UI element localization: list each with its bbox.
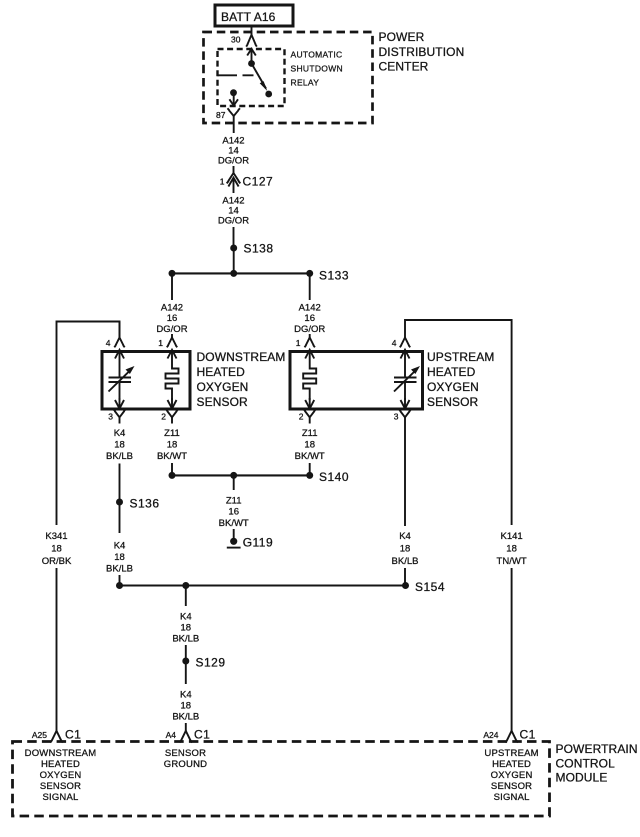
wire down to PCM pin A4 — [185, 723, 187, 731]
svg-text:18: 18 — [304, 440, 315, 451]
relay movable contact arm with arrow — [252, 64, 268, 92]
svg-text:K4: K4 — [399, 531, 411, 542]
wire into C127 — [233, 166, 235, 174]
wire label K341 18 OR/BK — [42, 531, 72, 567]
junction node left of bus — [169, 270, 176, 277]
wire downstream pin 4 up and over — [57, 322, 120, 526]
svg-text:BK/WT: BK/WT — [157, 451, 187, 462]
svg-text:2: 2 — [161, 412, 166, 422]
wire down to splice bus — [119, 575, 121, 586]
svg-text:HEATED: HEATED — [427, 365, 476, 379]
wire S138 to bus — [233, 248, 235, 273]
wire S133 down to upstream sensor pin 1 — [309, 273, 311, 300]
wire label A142 14 DG/OR (upper) — [218, 136, 249, 167]
wire upstream pin 2 down to S140 — [309, 463, 311, 475]
pin 87 male arrow inside relay — [229, 93, 238, 106]
upstream sensor pin 1 fork — [305, 334, 315, 347]
svg-text:1: 1 — [220, 177, 225, 187]
wire pin 2 down to ground bus — [171, 463, 173, 475]
label DOWNSTREAM HEATED OXYGEN SENSOR SIGNAL — [25, 748, 97, 803]
svg-text:K4: K4 — [114, 541, 126, 552]
pin 87 female fork — [228, 108, 240, 133]
wire C127 to S138 — [233, 227, 235, 248]
svg-text:S138: S138 — [244, 242, 274, 256]
downstream sensor heater element (variable resistor) — [109, 366, 135, 400]
wire label K4 18 BK/LB (below pin 3) — [106, 428, 133, 462]
ground bus wire to S140 — [172, 474, 310, 476]
downstream heated oxygen sensor box — [102, 352, 190, 410]
label SENSOR GROUND — [164, 748, 207, 770]
svg-text:BATT A16: BATT A16 — [221, 10, 276, 24]
wire down to S129 — [185, 645, 187, 661]
wire upstream pin 4 up and over — [405, 320, 512, 525]
splice S136 — [116, 497, 160, 511]
downstream sensor pin 2 male arrow inside box — [168, 398, 177, 409]
svg-text:DG/OR: DG/OR — [218, 156, 249, 167]
upstream sensor pin 4 fork — [400, 338, 410, 348]
splice bus wire to S154 — [120, 584, 406, 586]
svg-text:S140: S140 — [319, 470, 349, 484]
svg-text:OXYGEN: OXYGEN — [40, 770, 82, 781]
svg-text:Z11: Z11 — [164, 428, 180, 439]
relay output terminal node — [230, 89, 237, 96]
label UPSTREAM HEATED OXYGEN SENSOR — [427, 350, 494, 409]
svg-text:S129: S129 — [196, 656, 226, 670]
svg-text:OXYGEN: OXYGEN — [427, 380, 479, 394]
wire down to S154 — [404, 568, 406, 586]
svg-text:30: 30 — [231, 35, 241, 45]
ground G119 — [227, 536, 273, 550]
wire label Z11 18 BK/WT (below upstream pin 2) — [295, 428, 325, 462]
svg-text:1: 1 — [296, 338, 301, 348]
svg-text:A4: A4 — [166, 730, 177, 740]
svg-text:SENSOR: SENSOR — [40, 781, 81, 792]
svg-text:18: 18 — [114, 440, 125, 451]
wire center junction down — [233, 475, 235, 490]
downstream sensor pin 3 fork below box — [113, 409, 125, 423]
svg-text:DOWNSTREAM: DOWNSTREAM — [25, 748, 97, 759]
svg-text:18: 18 — [181, 701, 192, 712]
PCM pin A25 fork at C1 — [50, 731, 63, 743]
battery feed box BATT A16 — [215, 5, 293, 26]
downstream sensor sensing element (resistor) — [166, 366, 179, 400]
svg-text:POWER: POWER — [379, 30, 425, 44]
svg-text:C1: C1 — [65, 728, 81, 742]
svg-text:SENSOR: SENSOR — [197, 395, 249, 409]
upstream sensor pin 1 male arrow inside box — [305, 350, 314, 366]
svg-text:S136: S136 — [130, 497, 160, 511]
svg-text:BK/LB: BK/LB — [172, 712, 199, 723]
wire label Z11 18 BK/WT (below pin 2) — [157, 428, 187, 462]
svg-text:18: 18 — [400, 544, 411, 555]
svg-text:3: 3 — [108, 412, 113, 422]
svg-text:Z11: Z11 — [226, 496, 242, 507]
svg-text:GROUND: GROUND — [164, 759, 207, 770]
svg-text:OR/BK: OR/BK — [42, 556, 72, 567]
svg-text:HEATED: HEATED — [492, 759, 531, 770]
svg-text:G119: G119 — [243, 536, 273, 550]
svg-text:4: 4 — [106, 338, 111, 348]
splice S133 — [306, 269, 349, 283]
upstream sensor sensing element (resistor) — [303, 366, 316, 400]
svg-text:SIGNAL: SIGNAL — [494, 792, 530, 803]
svg-text:TN/WT: TN/WT — [497, 556, 527, 567]
powertrain control module dashed box — [13, 742, 550, 817]
svg-text:4: 4 — [392, 338, 397, 348]
svg-text:SHUTDOWN: SHUTDOWN — [291, 64, 343, 74]
svg-text:BK/WT: BK/WT — [219, 518, 249, 529]
pin 30 connector (female fork / male arrow) — [246, 35, 257, 64]
svg-text:K4: K4 — [180, 612, 192, 623]
wire junction down from splice bus — [185, 586, 187, 607]
svg-text:16: 16 — [228, 507, 239, 518]
downstream sensor pin 3 male arrow inside box — [115, 398, 124, 409]
junction node at pin 2 wire — [169, 472, 176, 479]
wire K341 down to PCM pin A25 — [56, 568, 58, 731]
svg-text:MODULE: MODULE — [556, 771, 608, 785]
downstream sensor pin 1 fork — [167, 334, 177, 347]
svg-text:18: 18 — [114, 552, 125, 563]
upstream sensor pin 4 male arrow inside box — [401, 350, 410, 377]
svg-text:C1: C1 — [520, 728, 536, 742]
svg-text:DG/OR: DG/OR — [156, 324, 187, 335]
svg-text:S154: S154 — [415, 580, 445, 594]
downstream sensor pin 4 male arrow inside box — [115, 350, 124, 377]
svg-text:3: 3 — [394, 412, 399, 422]
svg-text:18: 18 — [167, 440, 178, 451]
relay mechanical linkage dashed line — [218, 74, 254, 76]
connector C127 (fork and arrow) — [227, 173, 241, 193]
wire label A142 16 DG/OR (left) — [156, 303, 187, 336]
svg-text:18: 18 — [181, 623, 192, 634]
wire label A142 16 DG/OR (right) — [294, 303, 325, 336]
svg-text:S133: S133 — [319, 269, 349, 283]
svg-text:BK/LB: BK/LB — [392, 556, 419, 567]
svg-text:HEATED: HEATED — [197, 365, 246, 379]
svg-text:SIGNAL: SIGNAL — [42, 792, 78, 803]
wire label Z11 16 BK/WT — [219, 496, 249, 530]
upstream sensor pin 2 fork below box — [304, 409, 316, 423]
downstream sensor pin 1 male arrow inside box — [168, 350, 177, 366]
label DOWNSTREAM HEATED OXYGEN SENSOR — [197, 350, 286, 409]
wire bus down to downstream sensor pin 1 — [171, 273, 173, 300]
upstream heated oxygen sensor box — [290, 352, 423, 410]
svg-text:DG/OR: DG/OR — [218, 216, 249, 227]
wire label K4 18 BK/LB (below S136) — [106, 541, 133, 575]
wire label K4 18 BK/LB (above S129) — [172, 612, 199, 645]
junction node at PCM branch — [182, 582, 189, 589]
wire S136 down — [119, 502, 121, 533]
wire label K4 18 BK/LB (below upstream pin 3) — [392, 531, 419, 567]
wire K141 down to PCM pin A24 — [511, 568, 513, 731]
label UPSTREAM HEATED OXYGEN SENSOR SIGNAL — [484, 748, 538, 803]
svg-text:AUTOMATIC: AUTOMATIC — [291, 50, 343, 60]
wire S129 down — [185, 661, 187, 684]
svg-text:DOWNSTREAM: DOWNSTREAM — [197, 350, 286, 364]
svg-text:OXYGEN: OXYGEN — [197, 380, 249, 394]
svg-text:1: 1 — [158, 338, 163, 348]
svg-text:BK/LB: BK/LB — [172, 634, 199, 645]
splice S140 — [306, 470, 349, 484]
svg-text:K141: K141 — [501, 531, 523, 542]
relay NO contact node — [265, 91, 272, 98]
junction node left of splice bus — [116, 582, 123, 589]
svg-text:DG/OR: DG/OR — [294, 324, 325, 335]
svg-text:HEATED: HEATED — [41, 759, 80, 770]
svg-text:A24: A24 — [483, 730, 498, 740]
svg-text:SENSOR: SENSOR — [165, 748, 206, 759]
wire label K141 18 TN/WT — [497, 531, 527, 567]
svg-text:UPSTREAM: UPSTREAM — [427, 350, 494, 364]
wire pin 3 down to S136 — [119, 464, 121, 503]
upstream sensor heater element (variable resistor) — [394, 366, 420, 400]
svg-text:2: 2 — [299, 412, 304, 422]
junction node center of bus — [230, 270, 237, 277]
svg-text:16: 16 — [304, 313, 315, 324]
automatic shutdown relay dashed box — [218, 49, 285, 106]
svg-text:C127: C127 — [243, 175, 274, 189]
splice S129 — [182, 656, 225, 670]
splice S138 — [230, 242, 273, 256]
svg-text:RELAY: RELAY — [291, 78, 320, 88]
upstream sensor pin 2 male arrow inside box — [305, 398, 314, 409]
svg-text:K4: K4 — [180, 690, 192, 701]
upstream sensor pin 3 fork below box — [399, 409, 411, 423]
upstream sensor pin 3 male arrow inside box — [401, 398, 410, 409]
svg-text:CONTROL: CONTROL — [556, 757, 616, 771]
wire upstream pin 3 down — [404, 424, 406, 527]
svg-text:18: 18 — [51, 544, 62, 555]
svg-text:DISTRIBUTION: DISTRIBUTION — [379, 45, 465, 59]
svg-text:SENSOR: SENSOR — [427, 395, 479, 409]
svg-text:A142: A142 — [161, 303, 183, 314]
junction node center of ground bus — [230, 472, 237, 479]
label POWERTRAIN CONTROL MODULE — [556, 742, 638, 785]
svg-text:BK/WT: BK/WT — [295, 451, 325, 462]
downstream sensor pin 4 fork — [114, 322, 124, 348]
label POWER DISTRIBUTION CENTER — [379, 30, 465, 74]
svg-text:A142: A142 — [299, 303, 321, 314]
svg-text:87: 87 — [216, 110, 226, 120]
wire BATT A16 to pin 30 — [251, 26, 253, 35]
svg-text:BK/LB: BK/LB — [106, 564, 133, 575]
svg-text:BK/LB: BK/LB — [106, 451, 133, 462]
svg-text:UPSTREAM: UPSTREAM — [484, 748, 538, 759]
wire down to ground G119 — [233, 529, 235, 539]
svg-text:SENSOR: SENSOR — [491, 781, 532, 792]
PCM pin A24 fork at C1 — [505, 731, 518, 743]
bus wire at S133 — [172, 272, 310, 274]
svg-text:A25: A25 — [32, 730, 47, 740]
svg-text:OXYGEN: OXYGEN — [491, 770, 533, 781]
splice S154 — [402, 580, 445, 594]
svg-text:C1: C1 — [194, 728, 210, 742]
relay common terminal node — [248, 60, 255, 67]
svg-text:CENTER: CENTER — [379, 60, 429, 74]
svg-text:Z11: Z11 — [302, 428, 318, 439]
svg-text:K4: K4 — [114, 428, 126, 439]
PCM pin A4 fork at C1 — [180, 731, 193, 743]
wire label A142 14 DG/OR (lower) — [218, 196, 249, 227]
svg-text:K341: K341 — [45, 531, 67, 542]
downstream sensor pin 2 fork below box — [166, 409, 178, 423]
svg-text:16: 16 — [167, 313, 178, 324]
label AUTOMATIC SHUTDOWN RELAY — [291, 50, 343, 88]
wire label K4 18 BK/LB (below S129) — [172, 690, 199, 723]
power distribution center dashed box — [204, 32, 373, 123]
svg-text:POWERTRAIN: POWERTRAIN — [556, 742, 638, 756]
svg-text:18: 18 — [506, 544, 517, 555]
